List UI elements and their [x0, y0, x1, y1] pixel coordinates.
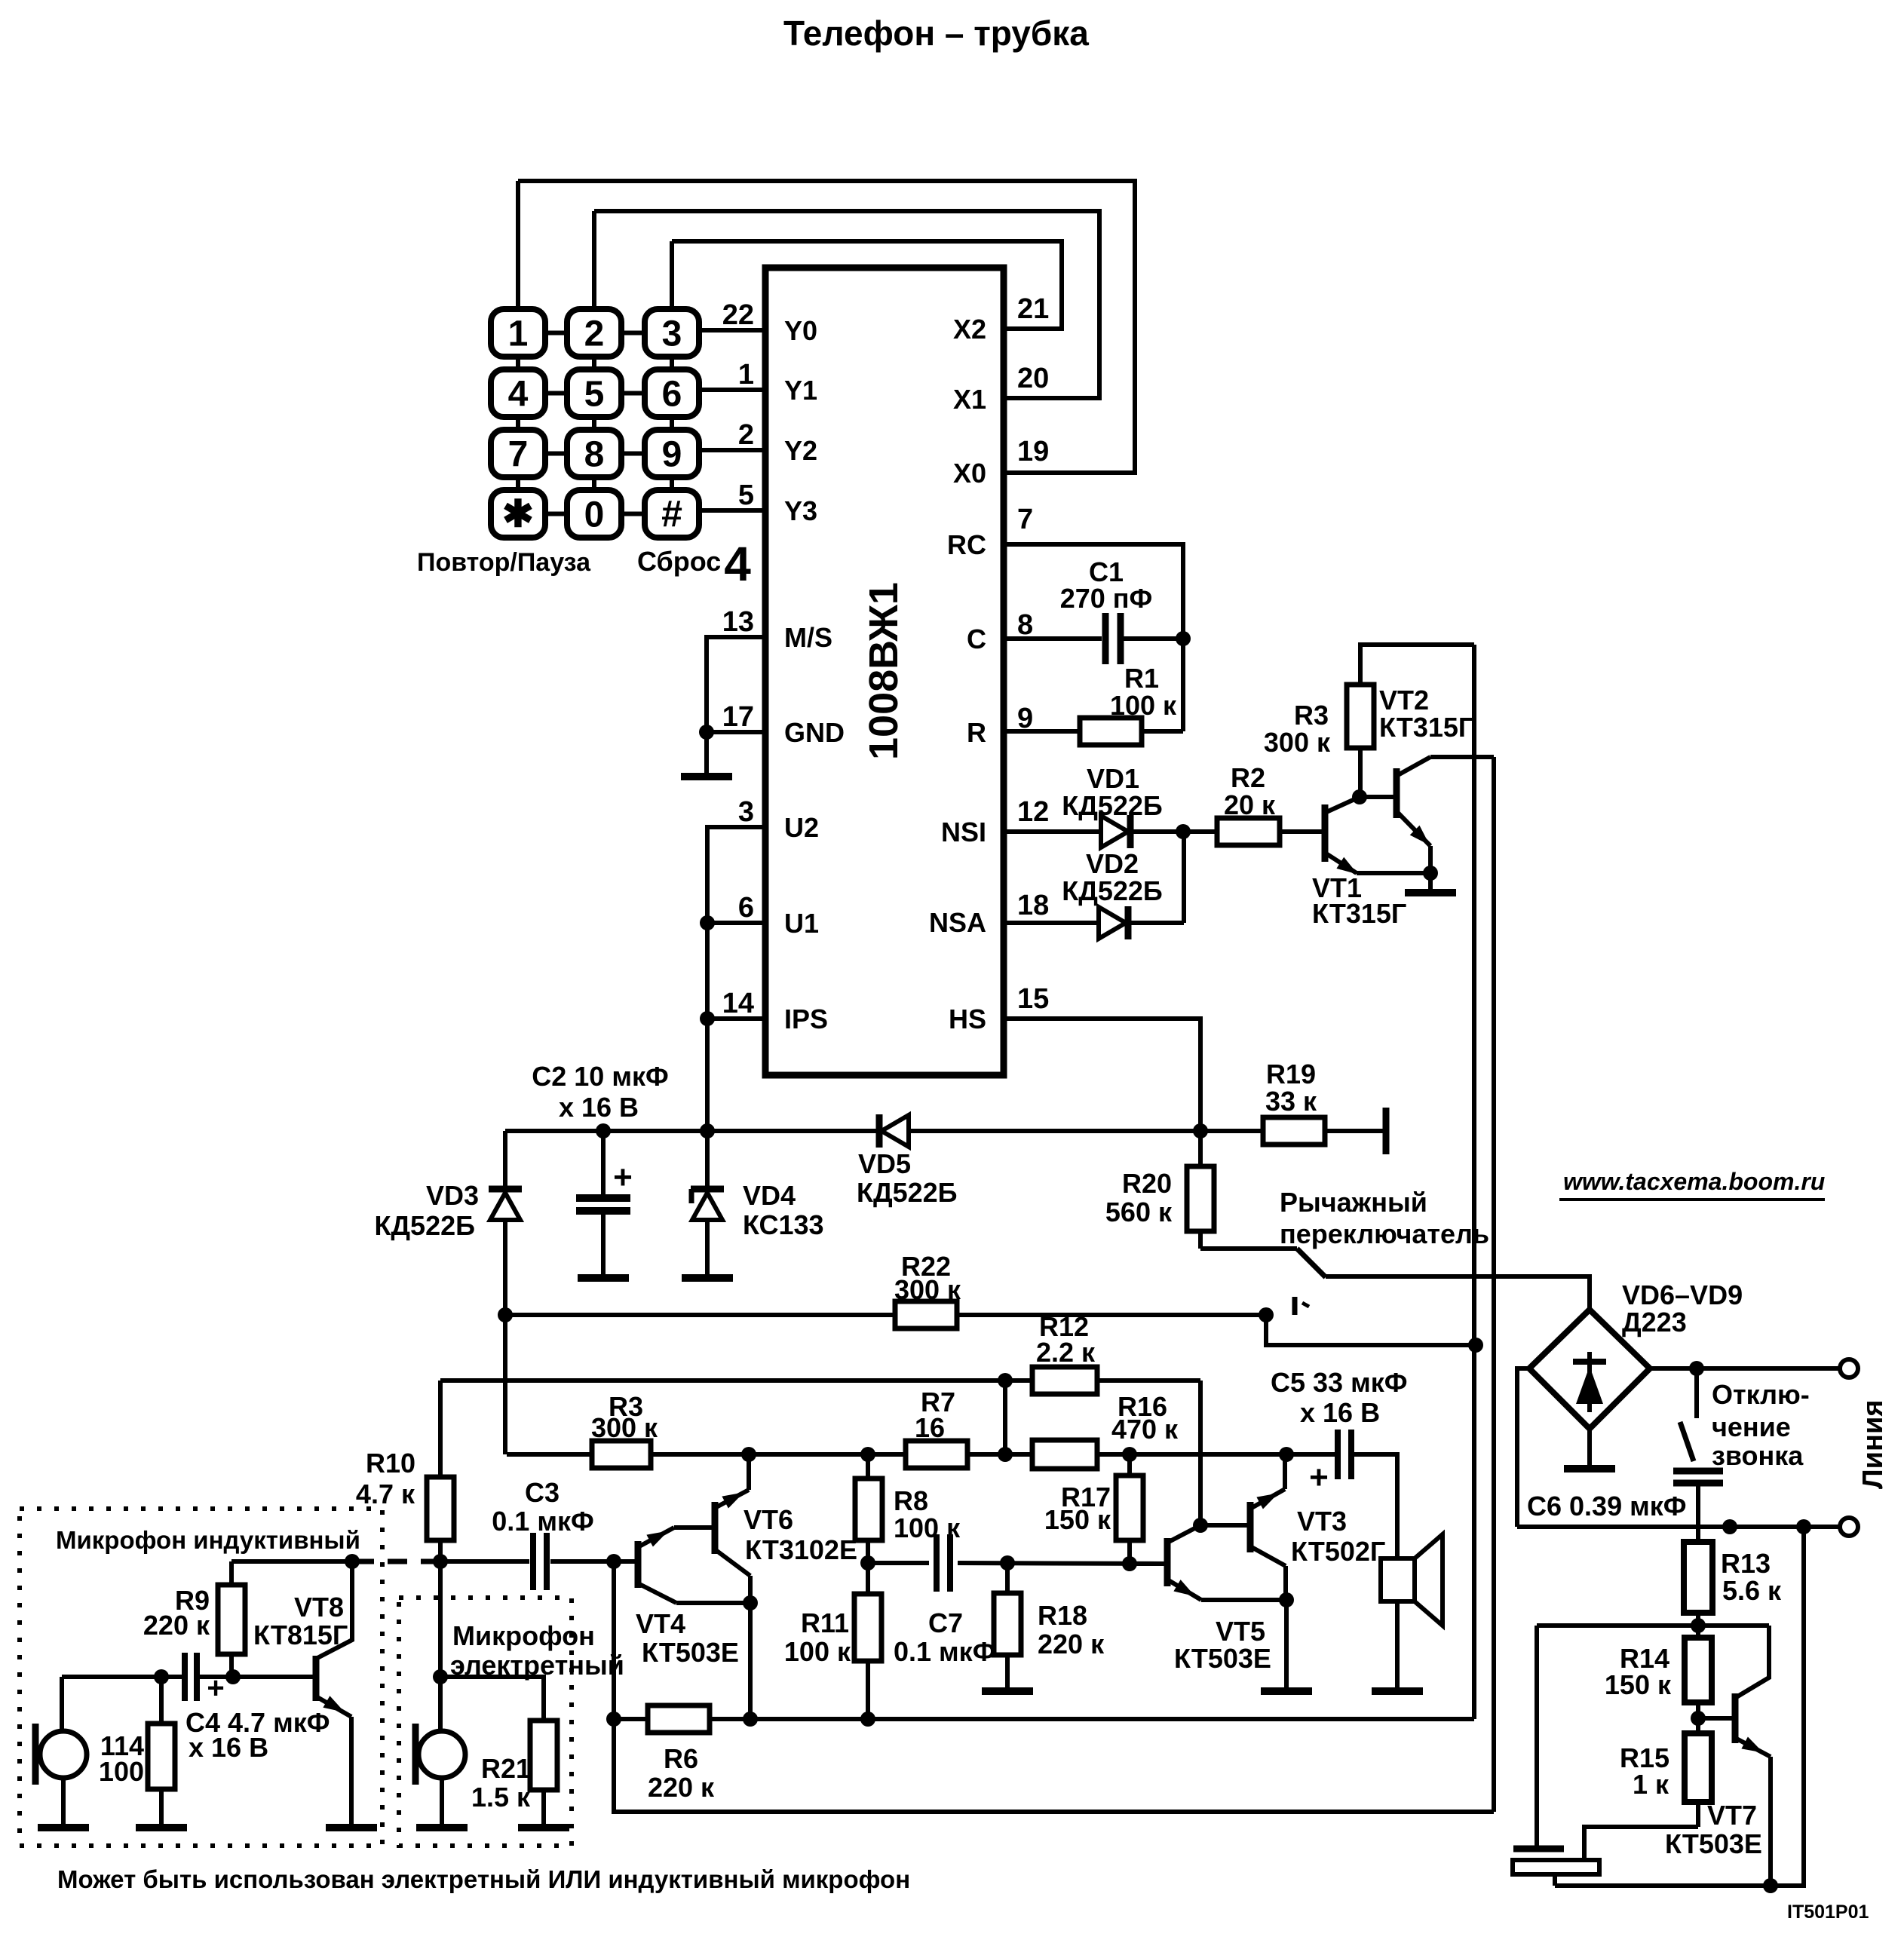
wire pin18 NSA [1004, 921, 1098, 925]
node R11 bottom junction [860, 1712, 875, 1727]
wire pin15 HS [1004, 1019, 1200, 1131]
node VT3 emitter top junction [1279, 1447, 1294, 1462]
capacitor C5 [1335, 1430, 1341, 1479]
transistor VT6 base bar [712, 1502, 719, 1554]
transistor VT7 emitter [1735, 1738, 1771, 1757]
node R12-R16 link junction [998, 1447, 1013, 1462]
resistor 114 100 [159, 1677, 164, 1724]
svg-text:C3: C3 [525, 1477, 560, 1508]
IC U1 1008ВЖ1 body [765, 268, 1004, 1075]
svg-text:300 к: 300 к [1264, 727, 1331, 758]
transistor VT1 base bar [1322, 804, 1329, 862]
wire R13-R14 node line [1537, 1623, 1769, 1628]
svg-text:270 пФ: 270 пФ [1060, 583, 1153, 614]
capacitor C2 [601, 1131, 606, 1198]
svg-text:R3: R3 [1294, 700, 1329, 731]
svg-text:Y3: Y3 [784, 495, 817, 526]
capacitor C6 [1673, 1468, 1723, 1475]
svg-text:17: 17 [722, 701, 754, 733]
svg-text:Y1: Y1 [784, 375, 817, 406]
diode VD4 zener [705, 1131, 710, 1187]
wire VT2 collector to right rail2 [1430, 755, 1494, 759]
resistor R22 [895, 1301, 957, 1328]
wire inductive mic line [62, 1675, 185, 1679]
wire bottom return line [614, 1719, 1494, 1812]
wire keypad row links [545, 331, 567, 336]
svg-text:U1: U1 [784, 908, 819, 939]
resistor R18 [1005, 1563, 1010, 1593]
ground VT8 emitter [326, 1824, 377, 1831]
wire bus column1 to X0 pin19 [518, 181, 1135, 473]
wire R12-R16 link [1003, 1381, 1007, 1454]
svg-text:100: 100 [99, 1756, 144, 1787]
svg-text:+: + [1309, 1459, 1329, 1496]
svg-text:X0: X0 [953, 458, 986, 489]
resistor R10 [438, 1381, 443, 1477]
wire mic2 bottom [440, 1778, 444, 1828]
svg-text:7: 7 [1017, 504, 1033, 535]
wire pin22 Y0 row [699, 328, 765, 332]
svg-text:VT4: VT4 [636, 1608, 685, 1639]
wire pin2 Y2 row [699, 448, 765, 452]
svg-text:3: 3 [738, 796, 754, 828]
svg-text:VT2: VT2 [1379, 685, 1429, 716]
svg-text:2.2 к: 2.2 к [1036, 1337, 1096, 1368]
node R18 top junction [1000, 1555, 1015, 1571]
keypad button 9 [645, 430, 699, 477]
svg-text:R13: R13 [1721, 1548, 1771, 1579]
transistor VT6 emitter (lower) [715, 1549, 750, 1576]
svg-text:R8: R8 [894, 1485, 928, 1516]
svg-text:2: 2 [738, 419, 754, 451]
node R8-R11-C7 junction [860, 1555, 875, 1571]
svg-text:VD1: VD1 [1087, 763, 1139, 794]
node R17 top junction [1122, 1447, 1137, 1462]
ground bridge [1564, 1465, 1615, 1472]
diode VD2 [1099, 907, 1126, 939]
diode VD1 [1101, 816, 1128, 847]
svg-text:33 к: 33 к [1265, 1086, 1317, 1117]
svg-text:1: 1 [508, 314, 529, 354]
svg-text:NSI: NSI [941, 817, 986, 847]
node VT1/VT2 emitter junction [1423, 866, 1438, 881]
transistor VT1 emitter [1325, 853, 1357, 873]
keypad button 2 [567, 309, 621, 357]
svg-text:КТ503Е: КТ503Е [1174, 1643, 1271, 1674]
node R13 bottom junction [1691, 1618, 1706, 1633]
svg-text:4: 4 [508, 375, 529, 415]
svg-text:R11: R11 [801, 1607, 849, 1638]
transistor VT7 base bar [1732, 1693, 1739, 1743]
wire VT2 base [1360, 795, 1394, 799]
node U1 junction [700, 915, 715, 930]
microphone BM1 inductive [32, 1724, 39, 1785]
keypad button 4 [491, 369, 545, 417]
resistor R15 [1685, 1733, 1712, 1802]
dotted box inductive microphone [20, 1509, 382, 1846]
resistor R9 [229, 1561, 234, 1585]
wire pin8 C [1004, 636, 1102, 641]
capacitor C3 [530, 1533, 536, 1590]
transistor VT2 collector [1397, 757, 1430, 776]
ringer switch blade [1680, 1422, 1694, 1461]
transistor VT5 emitter (lower) [1167, 1580, 1201, 1600]
wire keypad column links [516, 357, 520, 369]
wire VT3 node to ground [1284, 1600, 1289, 1691]
svg-text:КД522Б: КД522Б [374, 1210, 475, 1241]
wire VT4/VT6 node down to R6 line [748, 1603, 753, 1719]
ground R18 [982, 1687, 1033, 1695]
piezo ringer top plate [1513, 1846, 1564, 1852]
ground mic2 [416, 1824, 468, 1831]
wire keypad column stubs to top bus [516, 181, 520, 309]
hook switch blade [1297, 1249, 1326, 1277]
ground VT1 VT2 emitters [1405, 889, 1456, 896]
node C1-R1 right junction [1176, 631, 1191, 646]
wire rail VT2-collector down (x=1981) [1492, 757, 1496, 1812]
svg-text:HS: HS [949, 1004, 986, 1034]
svg-text:R19: R19 [1266, 1059, 1316, 1089]
wire C5 to speaker [1353, 1454, 1397, 1558]
svg-text:16: 16 [915, 1412, 945, 1443]
node C2 top junction [596, 1123, 611, 1138]
node branch on rail [1468, 1338, 1483, 1353]
svg-text:1: 1 [738, 359, 754, 391]
wire piezo bottom [1553, 1874, 1557, 1886]
svg-text:150 к: 150 к [1605, 1669, 1672, 1700]
node electret mic junction [433, 1669, 448, 1684]
svg-text:КД522Б: КД522Б [1062, 790, 1163, 821]
wire pin17 GND [707, 730, 765, 734]
wire bottom emitter line [1555, 1527, 1804, 1886]
speaker BA1 [1415, 1534, 1443, 1626]
transistor VT2 base bar [1394, 768, 1400, 818]
svg-text:X1: X1 [953, 384, 986, 415]
svg-text:Может быть использован электре: Может быть использован электретный ИЛИ и… [57, 1865, 910, 1893]
svg-text:+: + [613, 1159, 633, 1196]
wire bus column2 to X1 pin20 [594, 211, 1099, 398]
svg-text:Сброс: Сброс [637, 546, 721, 577]
wire pin9 R [1004, 729, 1080, 734]
svg-text:+: + [207, 1672, 224, 1705]
capacitor C4 [182, 1653, 188, 1701]
wire R20 to switch pole [1200, 1246, 1297, 1251]
svg-text:6: 6 [738, 892, 754, 924]
svg-text:КТ815Г: КТ815Г [253, 1620, 348, 1650]
ground VT3/VT5 [1261, 1687, 1312, 1695]
svg-text:220 к: 220 к [1038, 1629, 1105, 1659]
wire VT4 emitter to VT6 base [674, 1525, 712, 1530]
svg-text:560 к: 560 к [1105, 1197, 1173, 1227]
bridge inner diode [1587, 1352, 1592, 1412]
svg-text:100 к: 100 к [784, 1636, 851, 1667]
transistor VT7 collector [1735, 1626, 1769, 1698]
svg-text:Отклю-: Отклю- [1712, 1379, 1810, 1410]
svg-text:20 к: 20 к [1224, 789, 1276, 820]
node VT6 collector junction [741, 1447, 756, 1462]
node ringer switch tap [1689, 1361, 1704, 1376]
svg-text:КТ3102Е: КТ3102Е [745, 1534, 857, 1565]
ground VD4 [682, 1274, 733, 1282]
node R9 bottom junction [225, 1669, 241, 1684]
svg-text:Микрофон: Микрофон [452, 1620, 595, 1651]
keypad button 1 [491, 309, 545, 357]
keypad button star [491, 490, 545, 538]
svg-text:КС133: КС133 [743, 1209, 824, 1240]
node IPS junction [700, 1011, 715, 1026]
resistor R21 [440, 1677, 544, 1721]
svg-text:5: 5 [738, 480, 754, 511]
svg-text:M/S: M/S [784, 622, 832, 653]
piezo ringer body [1513, 1860, 1599, 1874]
svg-text:220 к: 220 к [648, 1772, 715, 1803]
keypad button 8 [567, 430, 621, 477]
resistor R7 [906, 1441, 967, 1468]
transistor VT4 emitter (upper) [638, 1528, 674, 1547]
svg-text:R10: R10 [366, 1448, 415, 1479]
svg-text:150 к: 150 к [1044, 1504, 1111, 1535]
svg-text:КТ503Е: КТ503Е [1665, 1828, 1762, 1859]
node VT1 collector / R3 / VT2 base [1352, 789, 1367, 804]
hook switch second contact tick [1292, 1297, 1298, 1315]
wire R3 bottom [1358, 748, 1363, 797]
node R8 top junction [860, 1447, 875, 1462]
svg-text:переключатель: переключатель [1280, 1218, 1489, 1249]
svg-text:x 16 В: x 16 В [189, 1732, 268, 1763]
hook switch fixed contact bar [1383, 1108, 1390, 1154]
transistor VT5 collector (upper) [1167, 1525, 1200, 1543]
node VT5 collector / R12 / VT3 base [1193, 1518, 1208, 1533]
svg-text:VD5: VD5 [858, 1148, 911, 1179]
svg-text:19: 19 [1017, 436, 1049, 467]
capacitor C7 [934, 1534, 940, 1592]
svg-text:300 к: 300 к [894, 1274, 961, 1305]
wire VD2 up to NSI node [1182, 832, 1186, 923]
wire R12 line [440, 1378, 1032, 1383]
ground C2 [578, 1274, 629, 1282]
svg-text:GND: GND [784, 717, 845, 748]
node VT7 emitter bottom [1763, 1878, 1778, 1893]
wire C7 line [868, 1561, 929, 1565]
transistor VT8 emitter [316, 1696, 351, 1717]
svg-text:КД522Б: КД522Б [1062, 875, 1163, 906]
node VT8 collector [345, 1554, 360, 1569]
svg-text:R18: R18 [1038, 1600, 1087, 1631]
transistor VT2 emitter [1397, 811, 1430, 846]
wire pin3 U2 rail [707, 827, 765, 1131]
wire speaker to ground [1395, 1601, 1400, 1691]
wire bridge right to line terminal [1650, 1366, 1841, 1371]
svg-text:звонка: звонка [1712, 1440, 1804, 1471]
dotted box electret microphone [399, 1598, 572, 1846]
svg-text:100 к: 100 к [1110, 690, 1177, 721]
wire to R19 [1325, 1129, 1384, 1133]
node HS-R20 junction [1193, 1123, 1208, 1138]
wire pin14 IPS [707, 1016, 765, 1021]
svg-text:R6: R6 [664, 1743, 698, 1774]
resistor R20 [1198, 1131, 1203, 1166]
wire piezo drop [1535, 1626, 1539, 1849]
svg-text:R1: R1 [1124, 663, 1159, 694]
svg-text:12: 12 [1017, 796, 1049, 828]
svg-text:Линия: Линия [1857, 1399, 1889, 1489]
svg-text:Д223: Д223 [1622, 1307, 1687, 1338]
keypad button 6 [645, 369, 699, 417]
node dc line to VT7 rail [1796, 1519, 1811, 1534]
svg-text:Y0: Y0 [784, 315, 817, 346]
svg-text:VT3: VT3 [1297, 1506, 1347, 1537]
wire VT7 base [1698, 1716, 1735, 1721]
node M/S-GND junction [699, 725, 714, 740]
svg-text:21: 21 [1017, 293, 1049, 325]
svg-text:1.5 к: 1.5 к [471, 1782, 531, 1813]
svg-text:КТ503Е: КТ503Е [642, 1637, 739, 1668]
svg-text:9: 9 [662, 435, 682, 475]
node R22 line junction [1259, 1307, 1274, 1322]
svg-text:Микрофон индуктивный: Микрофон индуктивный [56, 1526, 360, 1554]
transistor VT3 collector (lower) [1250, 1546, 1286, 1566]
ground mic resistor [136, 1824, 187, 1831]
keypad button 3 [645, 309, 699, 357]
svg-text:R21: R21 [481, 1753, 531, 1784]
wire dashed optional link [354, 1559, 440, 1564]
resistor R13 [1684, 1542, 1712, 1613]
ground speaker [1372, 1687, 1423, 1695]
svg-text:15: 15 [1017, 983, 1049, 1015]
keypad button 5 [567, 369, 621, 417]
svg-text:6: 6 [662, 375, 682, 415]
wire R12 right down to VT3 base line [1198, 1381, 1203, 1525]
svg-text:КТ315Г: КТ315Г [1312, 898, 1406, 929]
wire VT3 base [1200, 1523, 1248, 1528]
node C3 output junction [606, 1554, 621, 1569]
wire VT1 emitter to ground node [1357, 871, 1430, 875]
transistor VT6 collector (upper) [715, 1490, 749, 1508]
svg-text:0.1 мкФ: 0.1 мкФ [894, 1636, 995, 1667]
svg-text:4: 4 [724, 537, 751, 591]
wire R15 to piezo [1584, 1827, 1698, 1860]
svg-text:7: 7 [508, 435, 529, 475]
svg-text:18: 18 [1017, 890, 1049, 921]
svg-text:Повтор/Пауза: Повтор/Пауза [417, 548, 591, 577]
svg-text:C5 33 мкФ: C5 33 мкФ [1271, 1367, 1407, 1398]
wire R22 line [505, 1313, 895, 1317]
resistor R11 [866, 1563, 870, 1594]
svg-text:5: 5 [584, 375, 605, 415]
node U-rail on C2 line [700, 1123, 715, 1138]
wire VT2 emitter down [1428, 846, 1433, 893]
svg-text:VD4: VD4 [743, 1180, 796, 1211]
diode VD3 [490, 1193, 520, 1220]
svg-text:VT8: VT8 [294, 1592, 344, 1623]
wire bus column3 to X2 pin21 [672, 241, 1062, 329]
wire mic1 bottom [61, 1778, 66, 1828]
svg-text:22: 22 [722, 299, 754, 331]
node VT4/VT6 bottom junction [743, 1712, 758, 1727]
svg-text:www.tacxema.boom.ru: www.tacxema.boom.ru [1563, 1168, 1825, 1195]
svg-text:КТ502Г: КТ502Г [1291, 1536, 1385, 1567]
svg-text:20: 20 [1017, 363, 1049, 394]
svg-text:✱: ✱ [502, 493, 534, 535]
svg-text:0: 0 [584, 495, 605, 535]
capacitor C1 [1102, 613, 1109, 664]
wire VT5 base line [1130, 1561, 1164, 1566]
resistor R19 [1263, 1117, 1325, 1145]
wire VT5 emitter to VT3 collector node [1201, 1598, 1286, 1602]
resistor R16 [1032, 1440, 1097, 1469]
node C3 input junction [433, 1554, 448, 1569]
svg-text:U2: U2 [784, 812, 819, 843]
svg-text:14: 14 [722, 988, 754, 1019]
wire pin13 M/S [707, 637, 765, 777]
wire R6 line [614, 1717, 648, 1721]
node mic resistor top [154, 1669, 169, 1684]
svg-text:NSA: NSA [929, 907, 986, 938]
wire bottom dc line [1517, 1525, 1841, 1529]
svg-text:C6 0.39 мкФ: C6 0.39 мкФ [1527, 1491, 1686, 1522]
wire pin12 NSI [1004, 829, 1100, 834]
svg-text:Рычажный: Рычажный [1280, 1187, 1427, 1218]
transistor VT4 collector (lower) [638, 1583, 676, 1603]
resistor R14 [1696, 1626, 1700, 1638]
svg-text:8: 8 [1017, 609, 1033, 641]
svg-text:VT5: VT5 [1216, 1616, 1265, 1647]
node C3 branch bottom [606, 1712, 621, 1727]
svg-text:300 к: 300 к [591, 1412, 658, 1443]
svg-text:R20: R20 [1122, 1168, 1172, 1199]
keypad button hash [645, 490, 699, 538]
wire middle line [507, 1452, 592, 1457]
svg-text:R: R [967, 717, 986, 748]
keypad button 7 [491, 430, 545, 477]
resistor R2 [1217, 818, 1280, 845]
svg-text:1008ВЖ1: 1008ВЖ1 [861, 582, 906, 760]
wire bridge bottom to ground [1587, 1429, 1592, 1469]
wire VD3 branch [503, 1131, 507, 1187]
keypad button 0 [567, 490, 621, 538]
transistor VT4 base bar [635, 1541, 642, 1588]
resistor R8 [866, 1454, 870, 1479]
svg-text:VT7: VT7 [1707, 1800, 1757, 1831]
wire bridge left rail [1517, 1368, 1529, 1527]
node VT7 base junction [1691, 1711, 1706, 1726]
wire pin7 RC loop [1004, 544, 1183, 731]
svg-text:x 16 В: x 16 В [559, 1092, 639, 1123]
wire mic1 top [60, 1677, 64, 1733]
wire pin5 Y3 row [699, 508, 765, 513]
wire R2 to VT1 base [1280, 829, 1322, 834]
svg-text:13: 13 [722, 606, 754, 638]
node on dc line [1722, 1519, 1737, 1534]
ground mic1 [38, 1824, 89, 1831]
svg-text:КД522Б: КД522Б [857, 1177, 958, 1208]
svg-text:Телефон – трубка: Телефон – трубка [783, 14, 1089, 53]
svg-text:4.7 к: 4.7 к [356, 1479, 415, 1509]
transistor VT3 emitter (upper) [1250, 1489, 1285, 1509]
svg-text:R2: R2 [1231, 762, 1265, 793]
transistor VT1 collector [1325, 797, 1360, 813]
wire ringer switch drop [1694, 1368, 1699, 1418]
svg-text:IPS: IPS [784, 1004, 828, 1034]
resistor R12 [1032, 1367, 1097, 1394]
svg-text:3: 3 [662, 314, 682, 354]
svg-text:VD2: VD2 [1086, 848, 1139, 879]
wire R22 branch to right rail [1266, 1315, 1476, 1345]
wire pin1 Y1 row [699, 388, 765, 392]
diode bridge VD6-VD9 Д223 [1529, 1310, 1650, 1429]
transistor VT5 base bar [1164, 1538, 1171, 1586]
resistor R3 (300k lower) [592, 1441, 651, 1468]
